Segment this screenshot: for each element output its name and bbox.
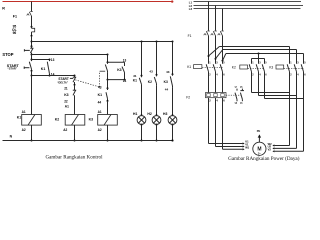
wire branch LB: [32, 54, 109, 56]
overload F2: [186, 93, 226, 103]
svg-text:K2: K2: [232, 66, 236, 70]
start button START DELTA (NC): [70, 75, 76, 86]
wire OL to STOP: [31, 36, 33, 46]
lamp H3: [163, 112, 177, 124]
wire main to K1 coil: [31, 76, 33, 115]
labels K3 A2: [89, 117, 102, 131]
svg-text:K2: K2: [148, 80, 152, 84]
svg-text:44: 44: [165, 87, 169, 91]
svg-text:A1: A1: [98, 110, 102, 114]
label START DELTA: [57, 77, 69, 85]
svg-text:Gambar RAngkaian Power (Daya): Gambar RAngkaian Power (Daya): [228, 155, 300, 162]
contact K3 pole 2: [294, 62, 299, 77]
phase R supply line (red): [3, 0, 174, 2]
K2 link dashes: [248, 68, 265, 70]
svg-text:K1: K1: [17, 115, 21, 119]
neutral line N: [3, 140, 174, 142]
lamp H2: [147, 112, 161, 124]
wire K1 to F2 2: [215, 76, 217, 93]
overload aux contact 95-96: [240, 87, 244, 105]
caption control: [45, 154, 103, 160]
svg-text:H1: H1: [133, 112, 137, 116]
K1 link dashes: [202, 67, 222, 69]
wire branch LC: [32, 59, 51, 61]
contact K3 (lamp H3): [170, 74, 173, 116]
svg-text:13: 13: [51, 58, 55, 62]
svg-text:V2: V2: [268, 148, 272, 152]
K3 link dashes: [284, 68, 304, 70]
wire delta feed 2: [223, 50, 297, 64]
coil K3: [98, 115, 118, 126]
branch diagonal 3: [222, 54, 226, 62]
contact K2 pole 1: [249, 62, 254, 77]
start button START STAR (NO): [24, 60, 32, 72]
svg-text:K1: K1: [41, 67, 46, 71]
wire drop phase 3: [222, 9, 224, 31]
svg-text:A2: A2: [63, 128, 67, 132]
wire to parallel contact top: [108, 61, 125, 63]
lamp H1: [133, 112, 146, 124]
caption power: [228, 155, 300, 162]
wire F2 to motor 3: [223, 98, 245, 151]
svg-text:H3: H3: [163, 112, 167, 116]
branch diagonal 2: [215, 50, 223, 60]
svg-text:K2: K2: [55, 117, 59, 121]
svg-text:K1: K1: [133, 79, 137, 83]
svg-text:A1: A1: [65, 105, 69, 109]
wire branch LA: [32, 41, 174, 43]
wire K1 to F2 1: [208, 76, 210, 93]
svg-text:H2: H2: [147, 112, 151, 116]
contactor K3 label: [269, 65, 284, 70]
fuse F1a: [204, 31, 210, 36]
svg-text:A2: A2: [22, 128, 26, 132]
svg-text:Gambar Rangkaian Kontrol: Gambar Rangkaian Kontrol: [45, 154, 103, 160]
stop button STOP (NC): [24, 45, 33, 54]
contact K2 pole 3: [262, 62, 267, 77]
wire seal column upper: [107, 55, 109, 64]
wire K3-2 to motor: [272, 76, 296, 150]
label START STAR: [7, 64, 20, 71]
svg-text:K1: K1: [187, 65, 191, 69]
labels 95 OL 96: [12, 25, 17, 36]
labels U1 V1 W1: [245, 140, 249, 150]
wire K1 coil to N: [31, 126, 33, 142]
svg-text:START: START: [58, 77, 68, 81]
wire fuse1 to K1: [208, 36, 210, 61]
contact K1 43-44: [106, 80, 109, 102]
svg-text:43: 43: [149, 70, 153, 74]
svg-text:22: 22: [64, 100, 68, 104]
svg-text:96: 96: [13, 31, 17, 35]
wire H3 to N: [172, 124, 174, 142]
svg-text:W1: W1: [245, 145, 249, 149]
svg-text:F1: F1: [188, 34, 192, 38]
wire K3-3 to motor: [272, 76, 303, 153]
wire branch LD: [32, 75, 75, 77]
contact K3 21-22 (NC): [73, 85, 76, 115]
wire drop phase 1: [208, 2, 210, 31]
svg-text:F2: F2: [186, 96, 190, 100]
coil K2: [65, 115, 85, 126]
labels 21 K3 22 A1: [64, 86, 69, 108]
fuse F1b: [211, 31, 217, 36]
labels 13 K3 14: [117, 59, 126, 83]
star bus: [252, 54, 265, 64]
contact K2 (lamp H2): [154, 75, 157, 117]
motor earth stem: [257, 129, 261, 142]
label STOP: [2, 52, 13, 57]
phase line L1: [189, 1, 301, 5]
wire delta feed 1: [219, 47, 289, 64]
contactor K1 label: [187, 65, 202, 69]
lamp H1 branch wire: [141, 42, 143, 77]
fuse F1: [27, 11, 33, 26]
svg-text:STOP: STOP: [2, 52, 13, 57]
motor M 3-phase: [253, 142, 266, 155]
wire parallel bottom: [108, 79, 125, 81]
wire delta feed 3: [226, 53, 304, 64]
svg-text:L1: L1: [189, 1, 193, 5]
svg-text:K3: K3: [117, 68, 121, 72]
wire K3-1 to motor: [272, 76, 289, 147]
svg-text:PE: PE: [257, 129, 261, 133]
label N: [10, 135, 13, 139]
contact K1 pole 1: [206, 61, 211, 76]
wire K2 coil to N: [74, 126, 76, 142]
F2 link dashes: [226, 94, 241, 96]
label F1 power: [188, 34, 192, 38]
svg-text:F1: F1: [13, 14, 17, 18]
svg-text:K1: K1: [98, 93, 102, 97]
wire fuse2 to K1: [215, 36, 217, 61]
overload contact OL 95-96: [31, 26, 35, 37]
contact K1 (lamp H1): [139, 76, 142, 117]
fuse F1c: [218, 31, 224, 36]
wire K2-3 down: [265, 76, 304, 99]
svg-text:K3: K3: [64, 93, 68, 97]
labels 13 K1 14: [41, 58, 55, 77]
svg-text:44: 44: [98, 100, 102, 104]
contact K1 13-14 (seal): [47, 60, 50, 77]
wire H2 to N: [156, 124, 158, 142]
svg-text:L3: L3: [189, 7, 193, 11]
labels W2 U2 V2: [268, 142, 272, 152]
lamp H3 branch wire: [172, 42, 174, 76]
contact K1 pole 2: [213, 61, 218, 76]
svg-text:R: R: [2, 7, 5, 11]
wire F2 to motor 1: [209, 98, 245, 145]
svg-text:K3: K3: [89, 117, 93, 121]
svg-text:A1: A1: [22, 110, 26, 114]
wire STOP to START: [31, 54, 33, 61]
contact K3 13-14 (delta seal): [122, 62, 126, 80]
contact K3 pole 1: [287, 62, 292, 77]
labels K2 A2: [55, 117, 68, 131]
start delta NO pole: [105, 62, 108, 80]
wire K2-1 down: [252, 76, 290, 93]
labels 31 K1: [133, 74, 137, 83]
wire main vertical top: [31, 2, 33, 12]
labels A1 K1 A2: [17, 110, 26, 132]
svg-text:K3: K3: [269, 66, 273, 70]
branch diagonal 1: [208, 47, 220, 58]
contactor K2 label: [232, 65, 248, 70]
labels 43 K1 44 A1: [98, 85, 102, 113]
overload aux contact 97-98: [235, 87, 238, 105]
svg-text:3~: 3~: [258, 151, 262, 155]
contact K2 pole 2: [256, 62, 261, 77]
phase line L2: [189, 4, 303, 8]
lamp H2 branch wire: [156, 42, 158, 76]
labels 43 K3 44: [164, 70, 170, 91]
wire K2-2 down: [259, 76, 297, 96]
wire drop phase 2: [215, 6, 217, 31]
svg-text:13: 13: [123, 59, 127, 63]
label F1: [13, 14, 17, 18]
svg-text:21: 21: [64, 86, 68, 90]
mechanical link dashes: [75, 71, 105, 87]
svg-text:31: 31: [133, 74, 137, 78]
phase line L3: [189, 7, 301, 11]
contact K3 pole 3: [301, 62, 306, 77]
wire H1 to N: [141, 124, 143, 142]
coil K1: [22, 115, 42, 126]
labels 43 K2: [148, 70, 153, 84]
svg-text:“STAR”: “STAR”: [7, 67, 17, 71]
contact K1 pole 3: [220, 61, 225, 76]
wire fuse3 to K1: [222, 36, 224, 61]
svg-text:43: 43: [98, 85, 102, 89]
wire K3 coil to N: [107, 126, 109, 142]
svg-text:K3: K3: [164, 80, 168, 84]
wire K1 to F2 3: [222, 76, 224, 93]
svg-text:“DELTA”: “DELTA”: [57, 81, 69, 85]
node R label: [2, 7, 5, 11]
wire to K3 coil: [107, 101, 109, 115]
wire F2 to motor 2: [216, 98, 245, 148]
svg-text:A2: A2: [98, 128, 102, 132]
wire START to node LD: [31, 71, 33, 77]
svg-text:43: 43: [166, 70, 170, 74]
